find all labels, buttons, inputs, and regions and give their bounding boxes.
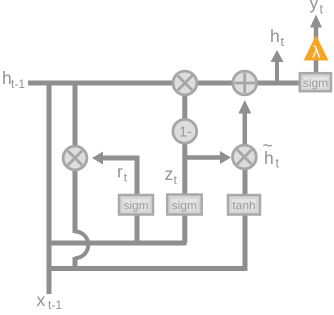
svg-text:y: y: [310, 0, 319, 13]
svg-text:sigm: sigm: [303, 76, 328, 90]
multiply node left (r gate): [63, 146, 87, 170]
wire sigm r drop: [135, 213, 140, 243]
svg-text:t: t: [276, 157, 280, 171]
multiply node on h line: [173, 71, 197, 95]
wire hop arc: [75, 232, 88, 259]
arrowhead y_t: [310, 15, 322, 28]
svg-text:t-1: t-1: [11, 77, 25, 91]
svg-text:h: h: [270, 26, 280, 46]
gate box sigm output: [300, 73, 331, 91]
wire vertical left (x path): [47, 81, 52, 295]
svg-text:t: t: [320, 3, 324, 17]
wire vertical below hop: [73, 257, 78, 271]
svg-text:t: t: [281, 35, 285, 49]
wire sigm z drop: [182, 213, 187, 243]
gate box sigm z: [167, 195, 202, 215]
wire candidate up arrow shaft: [243, 112, 248, 147]
wire vertical h-to-rgate top: [73, 81, 78, 234]
label h_t-1: [2, 68, 25, 91]
arrowhead into left multiply: [92, 152, 103, 165]
wire r elbow: [103, 158, 137, 195]
multiply node right (candidate): [233, 145, 257, 169]
svg-text:x: x: [37, 290, 46, 310]
gate box sigm r: [119, 195, 153, 215]
svg-text:λ: λ: [312, 44, 321, 62]
arrowhead into plus node: [238, 100, 251, 114]
svg-text:z: z: [165, 164, 174, 184]
wire z branch: [185, 155, 221, 160]
label h_t: [270, 26, 285, 49]
wire y_t arrow shaft: [314, 26, 319, 40]
svg-text:tanh: tanh: [232, 199, 255, 213]
wire h_t output arrow shaft: [275, 61, 279, 85]
wire z vertical: [182, 83, 187, 195]
svg-text:r: r: [117, 162, 123, 182]
wire tanh up: [243, 158, 248, 195]
label h-tilde_t: [263, 136, 280, 171]
wire main h line: [28, 81, 300, 86]
arrowhead into right multiply: [220, 151, 231, 164]
wire sigm-top to triangle: [314, 56, 319, 73]
label r_t: [117, 162, 128, 185]
plus node: [233, 71, 257, 95]
label z_t: [165, 164, 178, 187]
svg-text:1-: 1-: [179, 125, 192, 141]
label y_t: [310, 0, 324, 17]
arrowhead h_t: [271, 50, 284, 62]
svg-text:t-1: t-1: [48, 298, 62, 310]
svg-text:sigm: sigm: [123, 199, 148, 213]
op-amp triangle lambda: [304, 35, 329, 62]
wire lower bus with tanh drop: [47, 213, 246, 269]
svg-text:sigm: sigm: [172, 199, 197, 213]
label x_t-1: [37, 290, 63, 312]
wire upper bus: [47, 241, 187, 246]
gate box tanh: [228, 195, 260, 215]
svg-text:h: h: [264, 148, 274, 168]
one-minus node: [173, 119, 197, 143]
